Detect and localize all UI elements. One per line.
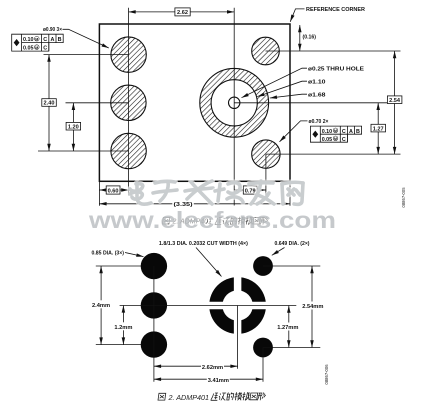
dimension 2.62mm <box>154 365 238 367</box>
svg-text:ø1.10: ø1.10 <box>308 79 326 85</box>
pad P5 (bottom-right, hatched 0.70) <box>252 140 280 168</box>
extension S3 left <box>96 344 141 346</box>
pad P2 (middle-left, hatched 0.90) <box>111 85 146 120</box>
stencil pad S4 top right <box>253 256 273 276</box>
dimension 2.54 right <box>394 51 396 154</box>
hanzi YI <box>218 393 226 400</box>
watermark hanzi SHAO <box>215 183 243 202</box>
svg-text:M: M <box>35 46 38 50</box>
svg-text:0.79: 0.79 <box>245 188 256 194</box>
svg-text:M: M <box>334 129 337 133</box>
svg-text:REFERENCE CORNER: REFERENCE CORNER <box>306 7 365 13</box>
hanzi XING <box>260 217 268 225</box>
centerline left pad column <box>128 8 130 196</box>
dimension 2.62 top <box>129 11 235 13</box>
extension package left edge <box>98 181 100 206</box>
hanzi TU <box>158 393 166 400</box>
dimension 1.2mm <box>122 305 124 344</box>
svg-text:2.62: 2.62 <box>177 10 188 16</box>
GD&T frame right <box>310 126 361 142</box>
centerline hole right <box>234 102 388 104</box>
svg-text:C: C <box>342 137 346 143</box>
svg-text:08867-006: 08867-006 <box>324 364 329 385</box>
centerline pad P5 right <box>266 153 401 155</box>
figure 1 caption (mostly hidden by watermark) <box>162 218 169 225</box>
svg-text:2.62mm: 2.62mm <box>202 365 223 371</box>
svg-text:B: B <box>58 37 62 43</box>
stencil pad S2 <box>141 292 167 318</box>
hanzi XING <box>257 393 266 401</box>
hanzi YI <box>222 218 230 225</box>
centerline pad P3 <box>38 150 129 152</box>
svg-text:C: C <box>43 37 47 43</box>
hanzi DE <box>230 217 237 224</box>
svg-text:A: A <box>50 37 54 43</box>
dimension 2.4mm <box>100 266 102 345</box>
hanzi MO <box>237 217 245 225</box>
svg-text:1.2mm: 1.2mm <box>114 325 132 331</box>
svg-text:ø0.25 THRU HOLE: ø0.25 THRU HOLE <box>308 66 364 72</box>
svg-text:M: M <box>35 38 38 42</box>
svg-text:1.8/1.3 DIA. 0.2032 CUT WIDTH: 1.8/1.3 DIA. 0.2032 CUT WIDTH (4×) <box>159 241 248 247</box>
GD&T frame left <box>12 34 64 51</box>
watermark hanzi WANG <box>282 182 303 204</box>
watermark hanzi FA <box>185 181 213 204</box>
svg-text:www.elecfans.com: www.elecfans.com <box>88 207 336 233</box>
svg-text:2.54: 2.54 <box>389 98 401 104</box>
dimension (0.16) right top <box>299 25 301 51</box>
svg-text:ø1.68: ø1.68 <box>308 92 326 98</box>
svg-text:B: B <box>356 129 360 135</box>
hanzi BAN <box>245 217 253 225</box>
stencil pad S3 <box>141 331 167 357</box>
pad P1 (top-left, hatched 0.90) <box>111 37 146 72</box>
svg-text:1.27mm: 1.27mm <box>277 325 298 331</box>
dimension 2.40 left <box>48 55 50 151</box>
centerline right column vertical <box>262 348 264 382</box>
centerline pad P4 right <box>266 50 401 52</box>
hanzi BAN <box>242 392 250 400</box>
extension S4 right <box>263 265 320 267</box>
centerline ring vertical <box>237 306 239 369</box>
hanzi TU2 <box>250 393 258 400</box>
hanzi JIAN <box>215 218 222 225</box>
svg-text:2.40: 2.40 <box>44 101 55 107</box>
svg-text:1.20: 1.20 <box>68 124 79 130</box>
watermark hanzi ZI <box>153 181 177 201</box>
hanzi TU <box>162 218 169 225</box>
dimension 0.79 bottom middle <box>234 189 266 191</box>
svg-text:C: C <box>43 46 47 52</box>
stencil ring with 4 cuts <box>207 275 268 336</box>
watermark hanzi YOU <box>249 181 274 204</box>
centerline pad P2 <box>66 102 129 104</box>
dimension 3.41mm <box>154 378 263 380</box>
dimension 1.20 left <box>72 103 74 151</box>
dimension (3.35) bottom <box>99 203 290 205</box>
svg-text:M: M <box>334 137 337 141</box>
centerline row2 horizontal <box>120 305 297 307</box>
svg-text:08867-005: 08867-005 <box>401 187 406 208</box>
figure 2 caption <box>158 393 166 400</box>
pad P4 (top-right, hatched 0.70) <box>252 37 280 65</box>
hanzi JIAN <box>211 393 219 400</box>
svg-text:0.05: 0.05 <box>23 46 34 52</box>
hanzi TU2 <box>253 218 260 225</box>
hanzi MO <box>234 392 242 400</box>
thru-hole annulus outer 1.68 <box>200 68 269 137</box>
thru hole 0.25 <box>229 97 240 108</box>
svg-text:0.10: 0.10 <box>23 37 34 43</box>
extension S5 right <box>263 347 320 349</box>
svg-text:0.60: 0.60 <box>108 188 119 194</box>
package outline <box>99 24 290 181</box>
dimension 0.60 bottom left <box>99 189 128 191</box>
pad P3 (bottom-left, hatched 0.90) <box>111 133 146 168</box>
centerline pad P5 column <box>265 154 267 195</box>
hanzi DE <box>226 393 234 401</box>
watermark hanzi DIAN <box>130 183 151 204</box>
centerline hole column <box>233 8 235 206</box>
svg-text:2.54mm: 2.54mm <box>302 304 323 310</box>
svg-text:C: C <box>342 129 346 135</box>
extension package right edge <box>289 181 291 206</box>
extension S1 left <box>96 265 141 267</box>
svg-text:2. ADMP401: 2. ADMP401 <box>168 393 209 402</box>
svg-text:2.4mm: 2.4mm <box>92 303 110 309</box>
centerline pad P1 <box>44 54 129 56</box>
svg-text:A: A <box>349 129 353 135</box>
stencil pad S1 <box>141 253 167 279</box>
dimension 2.54mm <box>311 266 313 348</box>
svg-text:0.05: 0.05 <box>322 137 333 143</box>
centerline left column vertical <box>153 266 155 382</box>
svg-text:0.85 DIA. (3×): 0.85 DIA. (3×) <box>92 250 125 256</box>
dimension 1.27mm <box>288 306 290 348</box>
svg-text:0.649 DIA. (2×): 0.649 DIA. (2×) <box>275 241 310 247</box>
svg-text:3.41mm: 3.41mm <box>208 378 229 384</box>
thru-hole inner circle 1.10 <box>211 80 257 126</box>
svg-text:ø0.70 2×: ø0.70 2× <box>309 119 329 125</box>
dimension 1.27 right <box>377 103 379 154</box>
svg-text:1.27: 1.27 <box>373 126 384 132</box>
stencil pad S5 bottom right <box>253 338 273 358</box>
svg-text:ø0.90 3×: ø0.90 3× <box>43 27 62 33</box>
svg-text:(0.16): (0.16) <box>303 35 317 41</box>
svg-text:0.10: 0.10 <box>322 129 333 135</box>
